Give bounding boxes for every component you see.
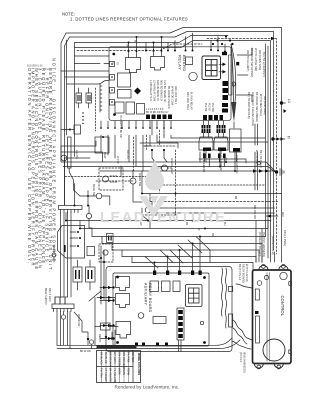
svg-text:BK/W SUPPLY: BK/W SUPPLY xyxy=(44,288,47,305)
dashed optional box lower xyxy=(99,244,113,262)
gnd arrow 2 xyxy=(266,212,285,218)
plug J3 xyxy=(73,260,82,290)
svg-text:W (TO PL3-4): W (TO PL3-4) xyxy=(255,150,259,167)
svg-text:BU BLUE: BU BLUE xyxy=(104,352,108,364)
watermark xyxy=(100,158,226,226)
cable end blob xyxy=(231,48,252,128)
lamp P7 xyxy=(145,202,151,216)
component box A1 xyxy=(118,73,131,87)
ground junction GND1 xyxy=(253,169,284,176)
diagonal feeds to aux xyxy=(145,237,210,269)
wire mid bus 1 xyxy=(61,160,276,172)
right end elbows xyxy=(253,220,268,270)
footer xyxy=(115,385,180,390)
aux display DS2 xyxy=(186,285,203,307)
relay board mounting holes xyxy=(112,53,116,116)
relay K2 pins xyxy=(153,36,163,57)
legend table xyxy=(97,351,141,383)
wire dashed optional mid runs xyxy=(65,177,266,186)
oven light L2 xyxy=(130,170,142,192)
broil element E1 xyxy=(199,121,213,158)
junction dots bottom left xyxy=(87,336,113,340)
svg-text:RD 1S3: RD 1S3 xyxy=(126,150,129,159)
svg-text:BK BLACK: BK BLACK xyxy=(100,352,104,365)
wire left vertical x66 xyxy=(67,40,110,135)
relay K1 pins xyxy=(126,36,138,58)
relay board outline xyxy=(109,47,231,121)
component box left F1 xyxy=(61,125,81,134)
svg-text:1. DOTTED LINES REPRESENT OPTI: 1. DOTTED LINES REPRESENT OPTIONAL FEATU… xyxy=(70,17,188,22)
svg-text:RD 1S1 RD: RD 1S1 RD xyxy=(253,205,257,219)
svg-text:OR (CAB GND): OR (CAB GND) xyxy=(263,96,267,115)
outer console panel xyxy=(106,267,233,352)
aux box B3 xyxy=(173,281,180,292)
relay coil K9 xyxy=(101,323,111,330)
varistor diamond xyxy=(134,88,141,95)
svg-text:BK W RD OR BU GY: BK W RD OR BU GY xyxy=(146,111,169,114)
svg-text:OR ORANGE: OR ORANGE xyxy=(122,352,126,369)
wire bottom run 1 xyxy=(57,338,232,345)
fuse bar F3 xyxy=(68,137,72,168)
feed dots left-bottom xyxy=(100,257,105,263)
lamp P5 xyxy=(61,312,65,346)
junction dots top right xyxy=(212,35,234,45)
connector tab right xyxy=(236,62,239,66)
wire top step run xyxy=(75,41,271,256)
lamp P3 xyxy=(86,206,91,229)
door lock drops xyxy=(140,121,178,162)
buzzer circle xyxy=(189,72,197,80)
svg-text:CLN BU SPARE NC: CLN BU SPARE NC xyxy=(163,80,166,103)
svg-text:BK (DOOR SW LOWER): BK (DOOR SW LOWER) xyxy=(255,92,259,122)
wire long run 2 xyxy=(150,201,278,203)
svg-text:W (TO LATCH): W (TO LATCH) xyxy=(245,264,249,282)
svg-text:BK: BK xyxy=(126,44,128,48)
ic box U2 xyxy=(186,57,193,65)
aux left pins xyxy=(100,286,115,340)
wire label column right margin xyxy=(246,48,267,219)
wire perimeter third run xyxy=(75,36,229,136)
bottom connector strip blocks xyxy=(146,115,223,121)
svg-text:RELAY BOARD): RELAY BOARD) xyxy=(242,264,246,283)
wire mid-left stubs xyxy=(61,141,96,205)
control harness wiggle wires xyxy=(232,284,252,349)
wire long run 8 xyxy=(112,249,259,251)
wire perimeter second run xyxy=(65,32,274,251)
relay board label xyxy=(178,55,188,72)
run label smudges xyxy=(103,150,237,237)
aux relay K7 xyxy=(116,294,130,308)
svg-text:W (TO LATCH SW): W (TO LATCH SW) xyxy=(254,48,258,71)
control unit body xyxy=(253,270,292,364)
wire right vertical bus b xyxy=(267,46,269,258)
plug J4 xyxy=(86,260,96,290)
svg-text:8101P541-60: 8101P541-60 xyxy=(27,64,43,68)
svg-text:L1: L1 xyxy=(287,99,291,103)
part number note xyxy=(27,64,43,68)
control label xyxy=(280,296,285,317)
svg-text:BK (DOOR SW UPPER): BK (DOOR SW UPPER) xyxy=(250,48,254,77)
svg-text:VT VIOLET: VT VIOLET xyxy=(104,368,108,382)
svg-text:BK (TO PL3-2): BK (TO PL3-2) xyxy=(259,150,263,168)
svg-text:PL2 RD: PL2 RD xyxy=(211,103,214,112)
lamp P2 xyxy=(80,184,110,205)
junction dots aux feeds xyxy=(147,220,201,264)
svg-text:BK (TO MOTOR DLB): BK (TO MOTOR DLB) xyxy=(247,92,251,119)
wire long run 7 xyxy=(102,243,262,245)
aux top terminals xyxy=(153,271,202,276)
aux relay K8 xyxy=(116,322,131,339)
node N terminal xyxy=(271,136,290,141)
right edge connector PL1 blocks xyxy=(222,81,228,113)
svg-text:PL1 GRY W BK OR: PL1 GRY W BK OR xyxy=(119,116,122,138)
plug J2 xyxy=(86,88,92,108)
component box A2 xyxy=(118,90,132,99)
svg-text:OR (TO HI-LIMIT): OR (TO HI-LIMIT) xyxy=(246,50,250,72)
control ear bottom right xyxy=(274,364,283,369)
lamp P8 xyxy=(52,253,56,257)
wire long run 9 xyxy=(122,256,256,258)
wire long run 10 xyxy=(132,262,253,264)
terminal strip TB1 xyxy=(59,206,83,213)
control right nubs xyxy=(289,282,292,354)
wire long run 1 xyxy=(142,193,282,195)
relay K2 xyxy=(151,57,165,71)
svg-text:BOARD: BOARD xyxy=(182,55,187,72)
svg-text:RD L1 120V: RD L1 120V xyxy=(48,288,51,302)
plug J5 xyxy=(107,234,114,243)
svg-text:AUXILIARY: AUXILIARY xyxy=(144,283,148,306)
left edge connector pads xyxy=(110,62,115,106)
legend table header xyxy=(137,353,141,375)
svg-text:RD RED: RD RED xyxy=(131,352,135,362)
relay K1 xyxy=(126,58,141,73)
svg-text:PK PINK: PK PINK xyxy=(127,352,131,363)
control top drop wires xyxy=(256,221,282,263)
svg-text:BK/W: BK/W xyxy=(103,152,106,159)
dot column xyxy=(82,112,83,124)
aux connector strip xyxy=(177,308,184,340)
verticals left-bottom xyxy=(54,245,104,304)
svg-text:RD (CONV FAN): RD (CONV FAN) xyxy=(258,50,262,70)
dashed optional box oven light upper xyxy=(134,130,177,215)
lamp P4 xyxy=(103,250,108,255)
svg-text:RD LOCK SW 2: RD LOCK SW 2 xyxy=(186,92,189,111)
svg-text:RD (L1 PWR): RD (L1 PWR) xyxy=(283,230,287,246)
wire left vertical drop xyxy=(61,135,75,205)
wire right vertical bus a xyxy=(265,44,267,220)
svg-text:RELAY: RELAY xyxy=(178,55,183,70)
relay K5 xyxy=(137,104,145,115)
dashed optional blower box xyxy=(99,168,123,190)
wire long run 6 xyxy=(92,236,266,238)
svg-text:L1 BK RELAY N.O.: L1 BK RELAY N.O. xyxy=(149,80,152,102)
svg-text:(SUPPLY HARNESS): (SUPPLY HARNESS) xyxy=(262,232,266,257)
svg-text:BAKE SW: BAKE SW xyxy=(92,184,96,197)
svg-text:Rendered by LeadVenture, Inc.: Rendered by LeadVenture, Inc. xyxy=(115,385,180,390)
svg-text:DOOR SW: DOOR SW xyxy=(138,173,142,187)
control ear top right xyxy=(279,265,288,271)
left bottom labels xyxy=(44,288,101,353)
selector switch block xyxy=(58,226,85,259)
svg-text:GRY (SELF CLEAN LATCH): GRY (SELF CLEAN LATCH) xyxy=(251,92,255,126)
aux circle xyxy=(138,313,144,319)
svg-text:WIRE COLORS: WIRE COLORS xyxy=(137,353,141,375)
arrows junction mid-left xyxy=(97,296,115,299)
svg-text:PL2 BK: PL2 BK xyxy=(204,103,207,112)
svg-text:(TO RELAY BOARD): (TO RELAY BOARD) xyxy=(258,232,262,256)
wire long run 5 xyxy=(80,228,268,230)
wires into board left xyxy=(61,56,109,77)
relay K4 xyxy=(126,102,135,114)
aux mounting dots xyxy=(116,276,206,344)
wire dashed optional perimeter xyxy=(77,39,277,255)
bake element E2 xyxy=(214,121,228,158)
relay K3 xyxy=(115,102,124,113)
lamp P6 xyxy=(89,340,93,344)
relay board pin label smudges xyxy=(111,62,214,138)
control ear top left xyxy=(259,265,268,271)
svg-text:W/BK: W/BK xyxy=(118,368,122,375)
component box B5 xyxy=(95,136,109,153)
control circles xyxy=(257,272,287,285)
note heading xyxy=(62,12,188,22)
svg-text:OR LOCK SW 1: OR LOCK SW 1 xyxy=(174,86,177,105)
plug J1 xyxy=(76,88,82,108)
svg-text:YL YELLOW: YL YELLOW xyxy=(113,368,117,384)
component box F2 xyxy=(87,247,95,256)
wire mid bus 3 xyxy=(100,170,276,172)
harness squiggles aux-control xyxy=(221,268,226,328)
element shelf line xyxy=(199,159,246,163)
cable lens curve xyxy=(231,44,236,116)
svg-text:OVEN LIGHT: OVEN LIGHT xyxy=(170,158,174,175)
svg-text:CONTROL: CONTROL xyxy=(280,296,285,317)
node L1 terminal xyxy=(280,99,291,113)
svg-text:N: N xyxy=(287,136,291,139)
wire coil leads xyxy=(88,327,118,349)
element drops xyxy=(204,152,236,167)
wire bottom dark segment xyxy=(97,345,137,348)
wire mid bus 2 xyxy=(63,167,276,173)
svg-text:RELAY: RELAY xyxy=(98,334,101,342)
oven light L1 xyxy=(158,158,175,175)
dashed vertical feed xyxy=(95,88,97,131)
aux drop wires xyxy=(155,237,201,271)
legend table entries xyxy=(100,352,136,384)
svg-text:DOOR SW: DOOR SW xyxy=(77,314,80,327)
fuse stub xyxy=(64,245,66,252)
control inner lines xyxy=(267,273,269,362)
dashed arrowhead xyxy=(271,37,275,41)
control slot xyxy=(255,289,260,343)
svg-text:RD/W: RD/W xyxy=(127,368,131,376)
junction dots mid xyxy=(65,161,236,230)
svg-text:BR BROWN: BR BROWN xyxy=(109,352,113,367)
svg-text:BK: BK xyxy=(234,196,237,200)
svg-text:(TO PL4: (TO PL4 xyxy=(239,352,243,362)
relay board top pins xyxy=(145,33,226,53)
svg-text:W 1S2: W 1S2 xyxy=(116,156,119,164)
aux relay board outline xyxy=(113,273,209,346)
svg-text:BAKE ELEMENT: BAKE ELEMENT xyxy=(219,151,223,172)
wire long run 3 xyxy=(152,207,275,209)
supply terminal strip TB2 xyxy=(52,297,74,312)
wire perimeter outer L1 run xyxy=(61,28,282,263)
svg-text:MAIN HARNESS): MAIN HARNESS) xyxy=(243,352,247,373)
aux box B4 xyxy=(153,317,204,352)
svg-text:BK DOOR UNLOCK: BK DOOR UNLOCK xyxy=(167,86,170,109)
switch S1 xyxy=(69,168,80,196)
svg-text:RD: RD xyxy=(211,233,214,237)
svg-text:WH WHITE: WH WHITE xyxy=(109,368,113,382)
svg-text:DLB OR BROIL HI: DLB OR BROIL HI xyxy=(156,80,159,101)
lamp P1 xyxy=(61,150,79,161)
svg-text:L2 W RELAY COM: L2 W RELAY COM xyxy=(153,80,156,101)
wire bottom run 2 xyxy=(57,340,240,349)
svg-text:MDL RD BAKE LO: MDL RD BAKE LO xyxy=(160,80,163,101)
aux bottom blocks xyxy=(135,343,168,347)
left verticals to supply strip xyxy=(55,213,71,305)
control ear bottom left xyxy=(254,364,263,369)
svg-text:OPERATION AFTER SERVICING. USE: OPERATION AFTER SERVICING. USE COPPER WI… xyxy=(27,68,32,265)
svg-text:TN TAN: TN TAN xyxy=(100,368,104,378)
aux relay board label xyxy=(144,283,153,313)
svg-text:GN GREEN: GN GREEN xyxy=(118,352,122,366)
wire mid verticals xyxy=(75,135,269,263)
clock display DS1 xyxy=(202,56,221,80)
switch S3 xyxy=(142,215,150,228)
svg-text:PL2 W: PL2 W xyxy=(208,103,211,111)
connector pairs below board xyxy=(100,121,172,129)
svg-text:LEADVENTURE: LEADVENTURE xyxy=(100,210,226,226)
svg-text:BK (TO PL1-2: BK (TO PL1-2 xyxy=(238,264,242,281)
svg-text:BK W RD: BK W RD xyxy=(80,350,91,353)
wire bottom drops xyxy=(57,298,115,349)
aux box B1 xyxy=(150,281,159,292)
notice text block xyxy=(27,58,57,273)
aux box B2 xyxy=(162,281,171,292)
svg-text:W MOTOR COM: W MOTOR COM xyxy=(171,86,174,105)
element labels xyxy=(202,151,239,174)
wire long run 11 xyxy=(155,212,275,214)
harness labels xyxy=(238,230,287,373)
motor box M1 xyxy=(230,129,242,152)
pin number strip PL3 xyxy=(100,84,102,112)
sensor circle xyxy=(257,161,261,165)
svg-text:BK/W: BK/W xyxy=(122,368,126,375)
vertical pair right mid xyxy=(255,124,258,190)
svg-text:GY GRAY: GY GRAY xyxy=(113,352,117,364)
display side strip xyxy=(219,52,232,95)
wire long run 4 xyxy=(66,213,271,221)
svg-text:W (TO NEUTRAL): W (TO NEUTRAL) xyxy=(259,94,263,116)
switch S4 xyxy=(74,312,88,339)
aux relay K6 xyxy=(116,277,130,291)
svg-text:BU FAN RELAY: BU FAN RELAY xyxy=(190,92,193,110)
control knob xyxy=(263,339,285,361)
svg-text:BU (TO L2 SUPPLY): BU (TO L2 SUPPLY) xyxy=(262,52,266,77)
